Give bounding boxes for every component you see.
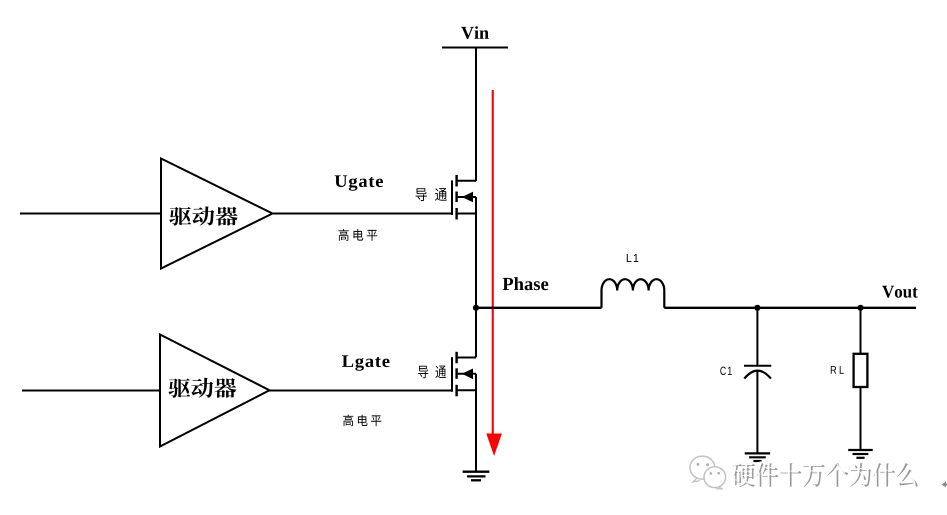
wire Vout rail to C1 [756,308,758,365]
value label L1 [627,254,639,262]
node junction dot at RL [857,305,863,311]
ground below C1 [745,453,770,461]
wire C1 to ground [756,371,758,453]
driver U1 label 驱动器 [169,206,237,225]
red current-flow arrow [486,90,502,456]
label 导通 (Q2 conducting) [418,366,446,379]
watermark logo (chat bubbles) [690,456,726,489]
wire Vin rail to Q1 drain [475,48,477,182]
value label RL [831,366,844,374]
op-amp U2 lower driver triangle [160,335,270,447]
resistor RL [854,354,868,387]
op-amp U1 upper driver triangle [161,159,273,269]
ground below RL [848,450,873,458]
transistor Q2 low-side NMOS [452,352,476,397]
value label C1 [720,367,731,375]
node Phase junction dot [473,305,479,311]
wire Phase to L1 [476,307,602,309]
inductor L1 [602,279,665,308]
wire U2 output to Q2 gate (Lgate net) [270,390,453,392]
wire U1 input [20,213,161,215]
small gray cursor mark bottom right [942,482,947,488]
capacitor C1 [744,366,771,379]
wire RL to ground [860,387,862,450]
net label Phase [503,277,549,290]
net label Vin [461,26,489,39]
net label Ugate [335,175,383,190]
label 高电平 (high level, Lgate) [343,415,381,427]
wire U1 output to Q1 gate (Ugate net) [273,213,453,215]
power ground below Q2 [463,472,490,481]
wire Q2 source to ground [475,374,477,471]
watermark text 硬件十万个为什么 [733,463,917,487]
node junction dot at C1 [754,305,760,311]
label 高电平 (high level, Ugate) [338,229,377,241]
wire Q1 source to Q2 drain (Phase column) [475,197,477,357]
power rail Vin bar [442,47,508,49]
label 导通 (Q1 conducting) [416,188,447,201]
wire Vout rail to RL [860,308,862,354]
driver U2 label 驱动器 [168,378,236,398]
wire L1 to Vout [664,307,916,309]
transistor Q1 high-side NMOS [452,175,476,220]
wire U2 input [22,390,160,392]
net label Vout [882,286,917,298]
net label Lgate [342,355,390,370]
